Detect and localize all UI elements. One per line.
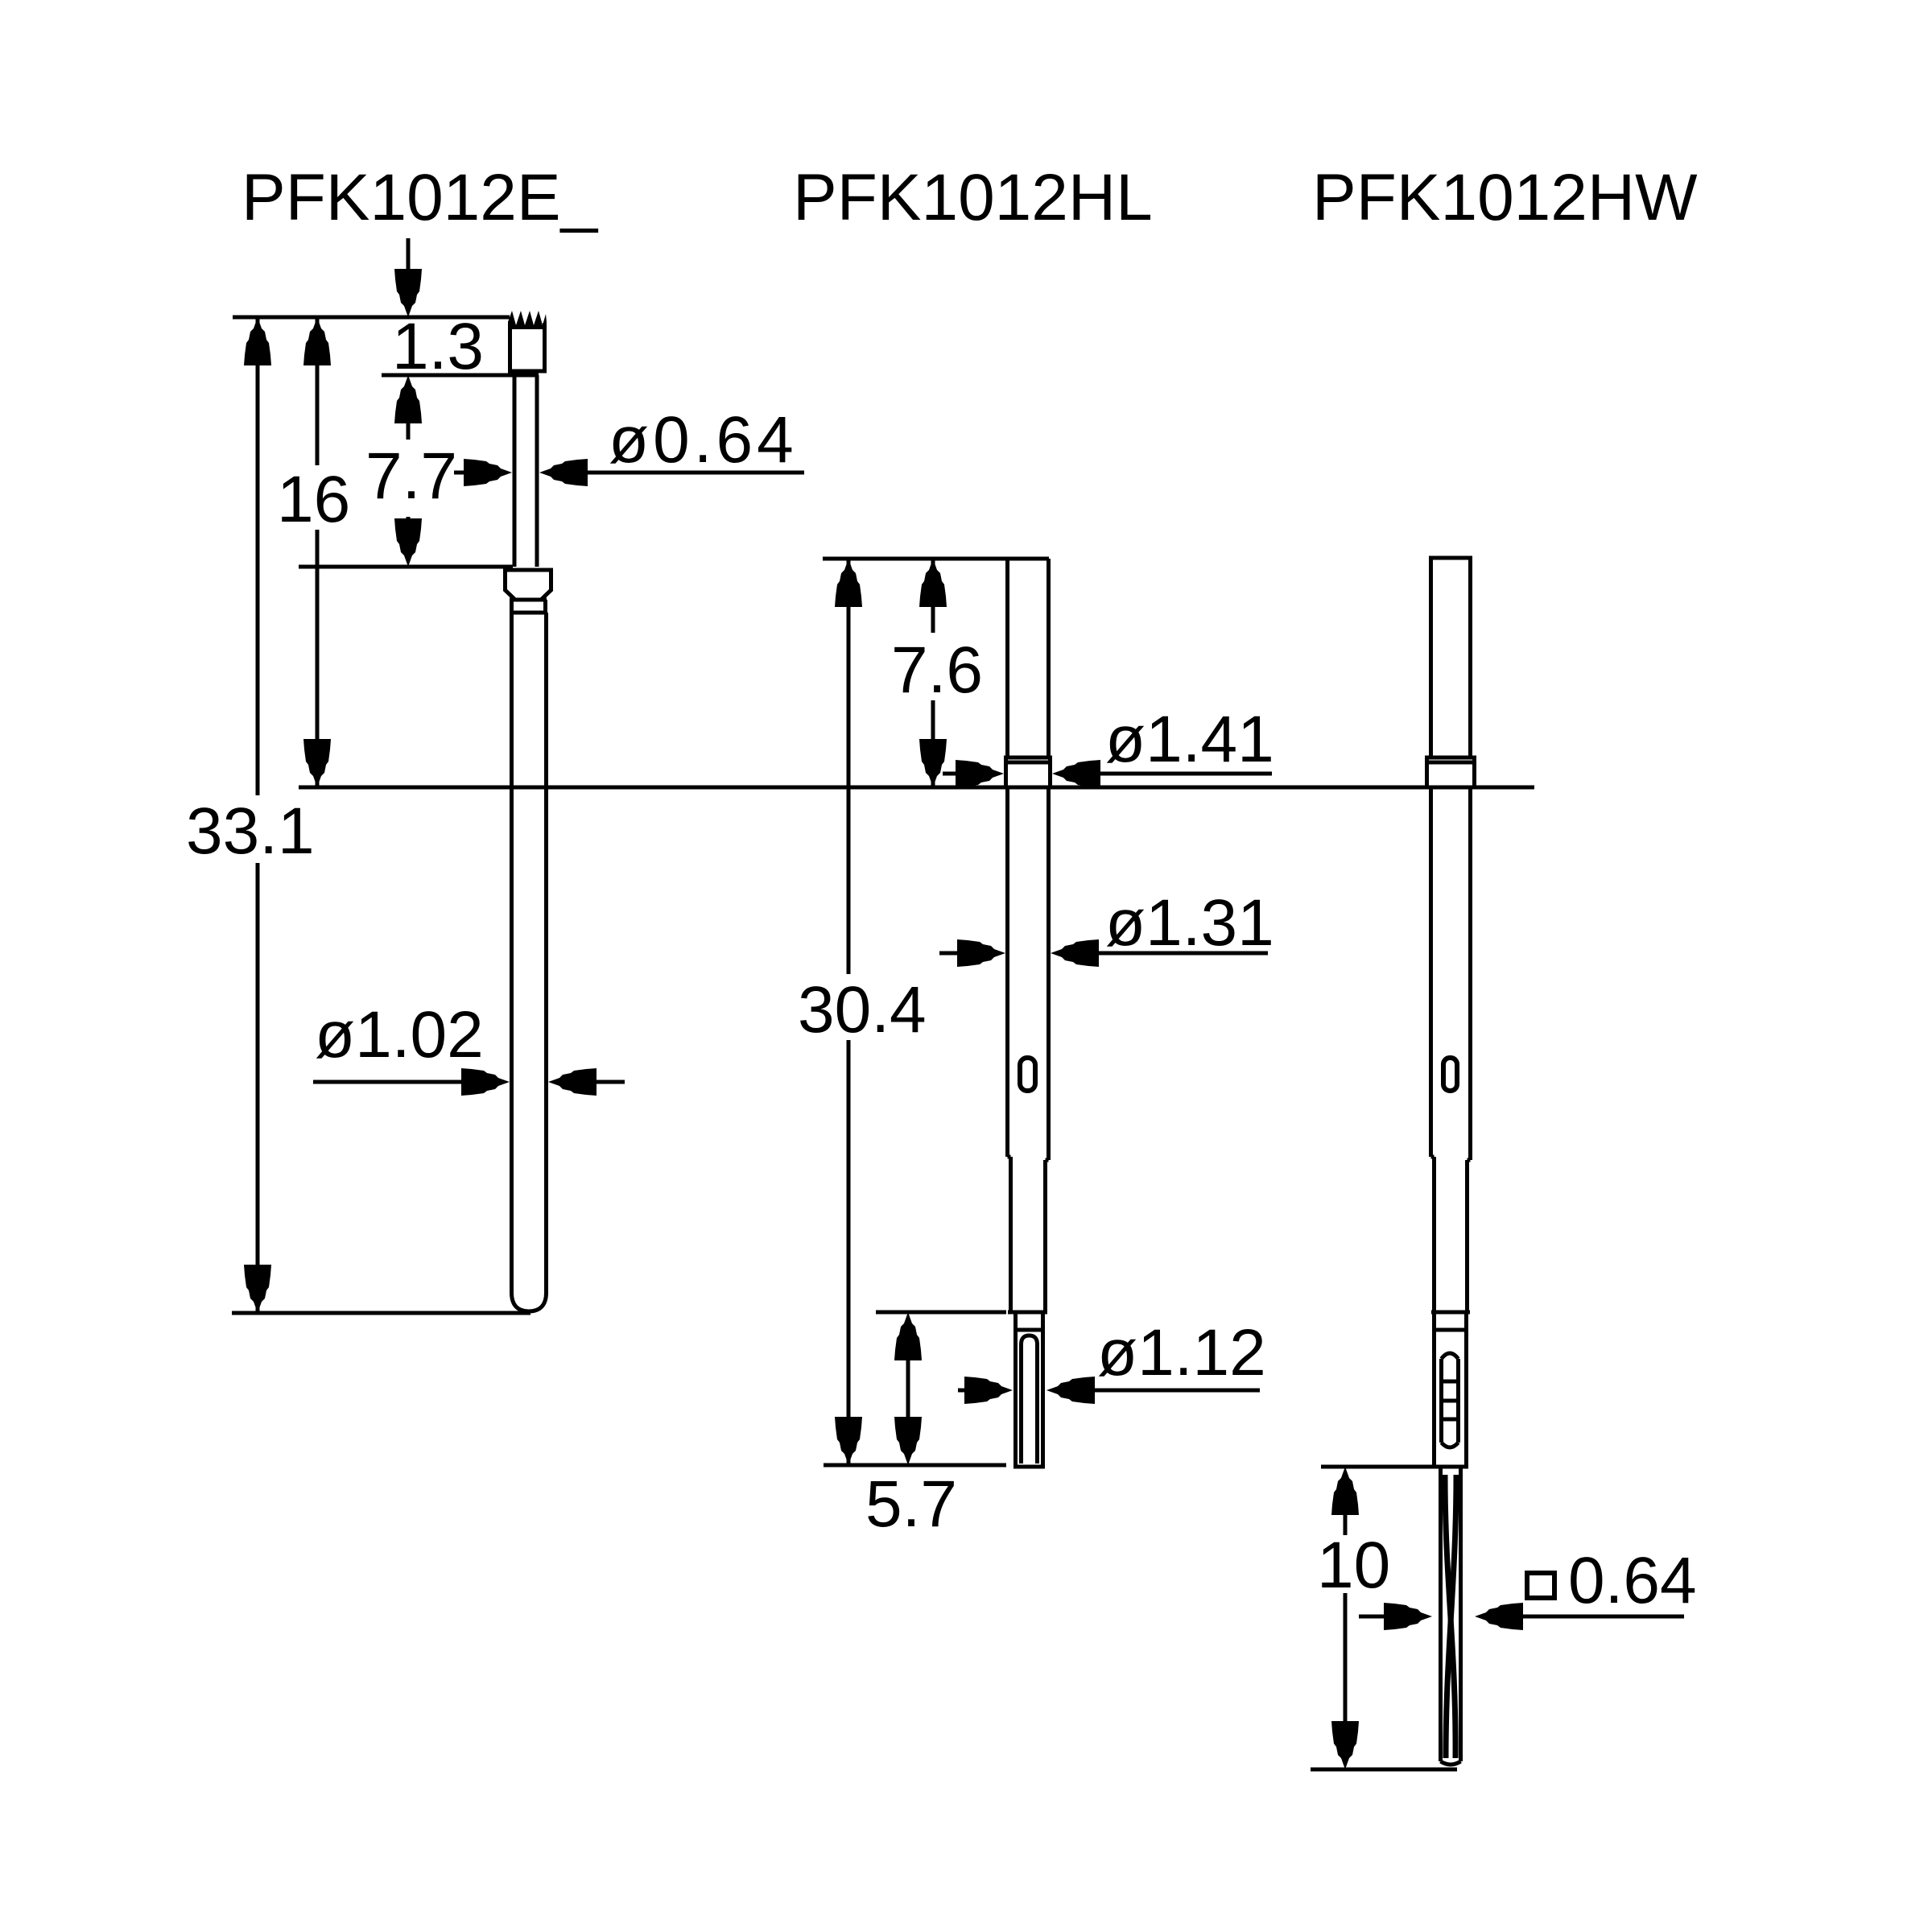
svg-text:33.1: 33.1 [186,795,315,868]
svg-text:5.7: 5.7 [865,1468,957,1541]
dimension diameter 1.02 [313,998,625,1096]
dimension 5.7 [824,1312,1006,1541]
svg-text:ø0.64: ø0.64 [609,403,798,477]
dimension 7.7 [299,375,513,567]
probe body PFK1012HL [823,559,1052,1467]
dimension 16 [277,317,350,787]
probe body PFK1012HW [1425,558,1476,1765]
dimension diameter 1.12 [958,1316,1266,1404]
svg-text:16: 16 [277,463,350,536]
svg-text:1.3: 1.3 [392,310,484,383]
svg-text:7.7: 7.7 [365,440,457,513]
datum line [299,786,1534,790]
svg-text:ø1.31: ø1.31 [1105,886,1274,960]
svg-text:ø1.02: ø1.02 [315,998,484,1071]
dimension 10 [1311,1467,1457,1769]
dimension diameter 1.31 [939,886,1274,967]
svg-text:PFK1012HW: PFK1012HW [1312,161,1698,234]
dimension diameter 0.64 [454,403,804,486]
title PFK1012E_ [242,161,599,234]
dimension 30.4 [798,559,927,1465]
svg-text:ø1.12: ø1.12 [1097,1316,1266,1389]
svg-text:PFK1012E_: PFK1012E_ [242,161,599,234]
dimension diameter 1.41 [943,703,1274,787]
svg-text:ø1.41: ø1.41 [1105,703,1274,776]
dimension square 0.64 [1359,1544,1697,1630]
svg-text:0.64: 0.64 [1568,1544,1697,1617]
title PFK1012HL [793,161,1153,234]
svg-text:7.6: 7.6 [891,634,983,707]
probe body PFK1012E_ [233,311,553,1311]
title PFK1012HW [1312,161,1698,234]
dimension 7.6 [891,559,983,787]
dimension 33.1 [186,317,530,1313]
dimension 1.3 [392,238,484,383]
svg-text:PFK1012HL: PFK1012HL [793,161,1153,234]
svg-text:10: 10 [1317,1529,1390,1602]
svg-text:30.4: 30.4 [798,973,927,1046]
